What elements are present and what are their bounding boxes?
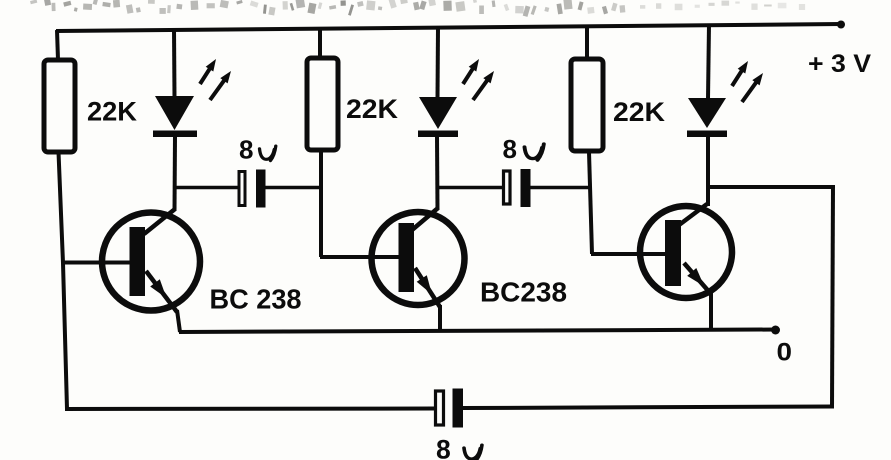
- wire: node C feedback to right side: [707, 185, 834, 189]
- LED D1: [153, 96, 197, 137]
- svg-text:8: 8: [239, 135, 253, 165]
- resistor R1 22K: [44, 30, 75, 152]
- wire: R2 bottom to Q2 base: [319, 151, 323, 257]
- LED D3: [687, 98, 727, 137]
- node: +V terminal dot: [837, 21, 845, 29]
- capacitor C3 8u: [436, 389, 464, 428]
- svg-text:+ 3 V: + 3 V: [808, 50, 871, 78]
- resistor R3 22K: [571, 26, 603, 151]
- LED D2 light arrows: [463, 59, 494, 100]
- wire: C1 to Q2 base node: [265, 186, 322, 190]
- wire: right side vertical feedback: [832, 185, 833, 408]
- LED D2: [418, 97, 458, 137]
- node: 0V terminal dot: [771, 326, 780, 335]
- wire: Q3 base lead: [591, 252, 667, 256]
- svg-text:0: 0: [777, 339, 793, 367]
- wire: Q2 base lead: [320, 255, 400, 259]
- transistor Q3 BC238: [640, 204, 732, 298]
- wire: node A to capacitor C1: [173, 186, 238, 190]
- wire: LED D2 anode from rail: [436, 27, 441, 98]
- wire: D2 cathode to Q2 collector: [435, 136, 440, 210]
- wire: Q1 base lead: [63, 261, 132, 265]
- wire: C2 to Q3 base node: [530, 186, 591, 190]
- svg-text:22K: 22K: [87, 97, 137, 127]
- capacitor C2 8u: [504, 169, 531, 207]
- resistor R2 22K: [307, 28, 338, 150]
- wire: 0V emitter rail: [179, 330, 777, 333]
- capacitor C1 8u: [239, 170, 266, 208]
- svg-text:BC238: BC238: [480, 277, 567, 308]
- svg-text:22K: 22K: [346, 94, 398, 124]
- wire: node B to capacitor C2: [436, 186, 503, 190]
- wire: Q2 emitter foot: [438, 305, 442, 332]
- wire: bottom left to capacitor C3: [65, 407, 435, 412]
- svg-text:22K: 22K: [613, 97, 665, 127]
- svg-text:8: 8: [503, 134, 517, 164]
- LED D3 light arrows: [732, 61, 763, 102]
- wire: D1 cathode to Q1 collector: [173, 136, 178, 211]
- wire: Q1 emitter foot: [177, 310, 180, 332]
- wire: LED D3 anode from rail: [708, 24, 709, 99]
- wire: C3 to right side vertical: [463, 407, 834, 409]
- scan noise top band: [30, 0, 805, 17]
- wire: R3 bottom to Q3 base: [589, 152, 592, 254]
- svg-text:BC 238: BC 238: [210, 284, 302, 315]
- wire: LED D1 anode from rail: [172, 28, 177, 97]
- transistor Q1 BC238: [102, 209, 200, 312]
- svg-text:8: 8: [436, 435, 451, 460]
- wire: R1 bottom to Q1 base and bottom cap: [59, 152, 68, 409]
- transistor Q2 BC238: [372, 208, 465, 307]
- LED D1 light arrows: [200, 59, 231, 100]
- wire: +V top rail: [56, 24, 842, 31]
- wire: D3 cathode to Q3 collector: [706, 136, 710, 206]
- wire: Q3 emitter foot: [709, 292, 713, 331]
